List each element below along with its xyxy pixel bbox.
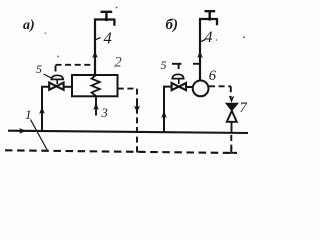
condensate pipe 3 below exchanger [95,96,97,116]
impulse dashed line fig b [172,64,199,69]
control valve 5 fig a : actuator dome [51,75,63,79]
arrow up on left riser fig a [39,107,45,115]
control valve 5 fig a : bowtie body [49,83,63,90]
scan speck 2 [243,36,245,38]
arrow right on supply line [19,128,27,134]
tap T2 (vent cock, fig b) [205,11,216,19]
pipe 4 vertical fig b [199,18,201,81]
leader of label 5 fig a [44,74,52,78]
valve 7 body (vertical bowtie) [226,103,238,111]
dashed outlet line fig a (right of exchanger, down to drain) [118,89,137,151]
junction blob tap fig b [208,17,211,20]
pump 6 circle [193,81,209,97]
corner of drain line at valve 7 drop [231,147,237,153]
leader of label 4 fig b [201,39,206,41]
svg-text:7: 7 [240,100,248,116]
svg-text:4: 4 [104,29,112,48]
arrow up on left riser fig b [161,111,167,119]
heat exchanger 2 coil zigzag [92,76,100,97]
pipe top horizontal fig a [94,20,115,26]
arrow down into valve 7 [229,96,235,103]
scan speck 4 [216,39,218,41]
svg-text:6: 6 [209,68,217,84]
pipe top horizontal fig b [199,19,218,25]
leader of label 1 [31,120,49,152]
foot tick of dashed outlet fig a at drain [136,147,138,153]
scan speck 5 [45,32,47,34]
scan speck 1 [116,7,118,9]
svg-text:5: 5 [36,62,42,76]
dashed discharge line fig b (right of pump, corner down) [209,86,231,97]
dashed drain drop below valve 7 [230,135,232,152]
pipe 4 vertical fig a [94,19,96,76]
pipe valve 5 to pump 6 fig b [186,86,193,88]
svg-text:4: 4 [205,29,213,46]
svg-text:5: 5 [161,58,167,72]
control valve 5 fig a : stem [56,79,58,84]
pipe left inlet fig a (horizontal + vertical riser) [42,87,49,132]
arrow up on pipe 3 [93,103,99,110]
svg-text:3: 3 [101,106,108,120]
control valve 5 fig b : stem [178,78,180,84]
drain dashed line (bottom) [5,150,237,153]
pipe below valve 7 crossing supply line [231,122,233,134]
heat exchanger 2 body [72,75,118,96]
impulse dashed line fig a [56,65,95,74]
leader of label 4 fig a [96,37,101,39]
water supply line (bottom solid) [8,131,248,133]
pipe left inlet fig b (horizontal + vertical riser) [164,87,172,133]
svg-text:б): б) [166,17,178,33]
arrow up on pipe 4 fig a [92,51,98,58]
control valve 5 fig b : actuator dome [172,74,183,78]
arrow down on dashed outlet fig a [136,103,138,113]
pipe from valve 5 to heat exchanger fig a [64,86,73,88]
scan speck 3 [57,56,59,58]
svg-text:2: 2 [114,55,122,71]
junction blob tap fig a [105,18,108,21]
svg-text:а): а) [23,18,35,33]
arrow up on pipe 4 fig b [197,51,203,58]
tap T1 (vent cock, fig a) [101,12,113,20]
control valve 5 fig b : bowtie body [172,83,186,90]
